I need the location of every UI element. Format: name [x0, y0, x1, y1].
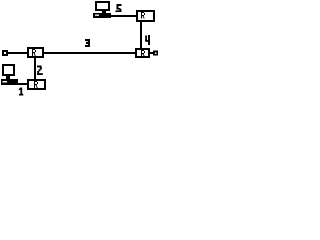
- background: [0, 0, 160, 100]
- router R5 box (top right): [136, 10, 155, 22]
- label 4 (link 4): [145, 35, 150, 45]
- host H2 monitor neck: [102, 11, 106, 13]
- label 2 (link 2): [37, 66, 43, 76]
- wire: link 4 (router R5 down to router R4): [140, 21, 142, 49]
- wire: link 2 (router R1 down to router R2): [34, 56, 36, 80]
- host H2 monitor (top right workstation): [95, 1, 110, 11]
- host H2 floppy slot: [95, 15, 99, 16]
- router R4 box (right, on bus): [135, 48, 150, 58]
- router R2 box (bottom left): [27, 79, 46, 90]
- host H1 monitor neck: [6, 76, 10, 79]
- router R2 label R: [34, 81, 38, 88]
- label 3 (ethernet bus): [85, 39, 90, 47]
- router R5 label R: [141, 12, 145, 19]
- host H1 system base: [1, 79, 18, 85]
- host H1 monitor (bottom left workstation): [2, 64, 15, 76]
- router R1 box (left, on bus): [27, 47, 44, 58]
- wire: ethernet bus (net 3): [5, 52, 155, 54]
- host H2 system base: [93, 13, 111, 18]
- wire: link 5 (host H2 to router R5): [110, 15, 137, 17]
- router R1 label R: [32, 49, 36, 56]
- wire: link 1 (host H1 to router R2): [17, 83, 28, 85]
- label 5 (link 5): [116, 4, 122, 12]
- host H1 floppy slot: [3, 81, 8, 83]
- left bus terminator: [2, 50, 8, 56]
- label 1 (link 1): [19, 88, 24, 96]
- router R4 label R: [141, 50, 145, 56]
- right bus terminator: [153, 51, 158, 56]
